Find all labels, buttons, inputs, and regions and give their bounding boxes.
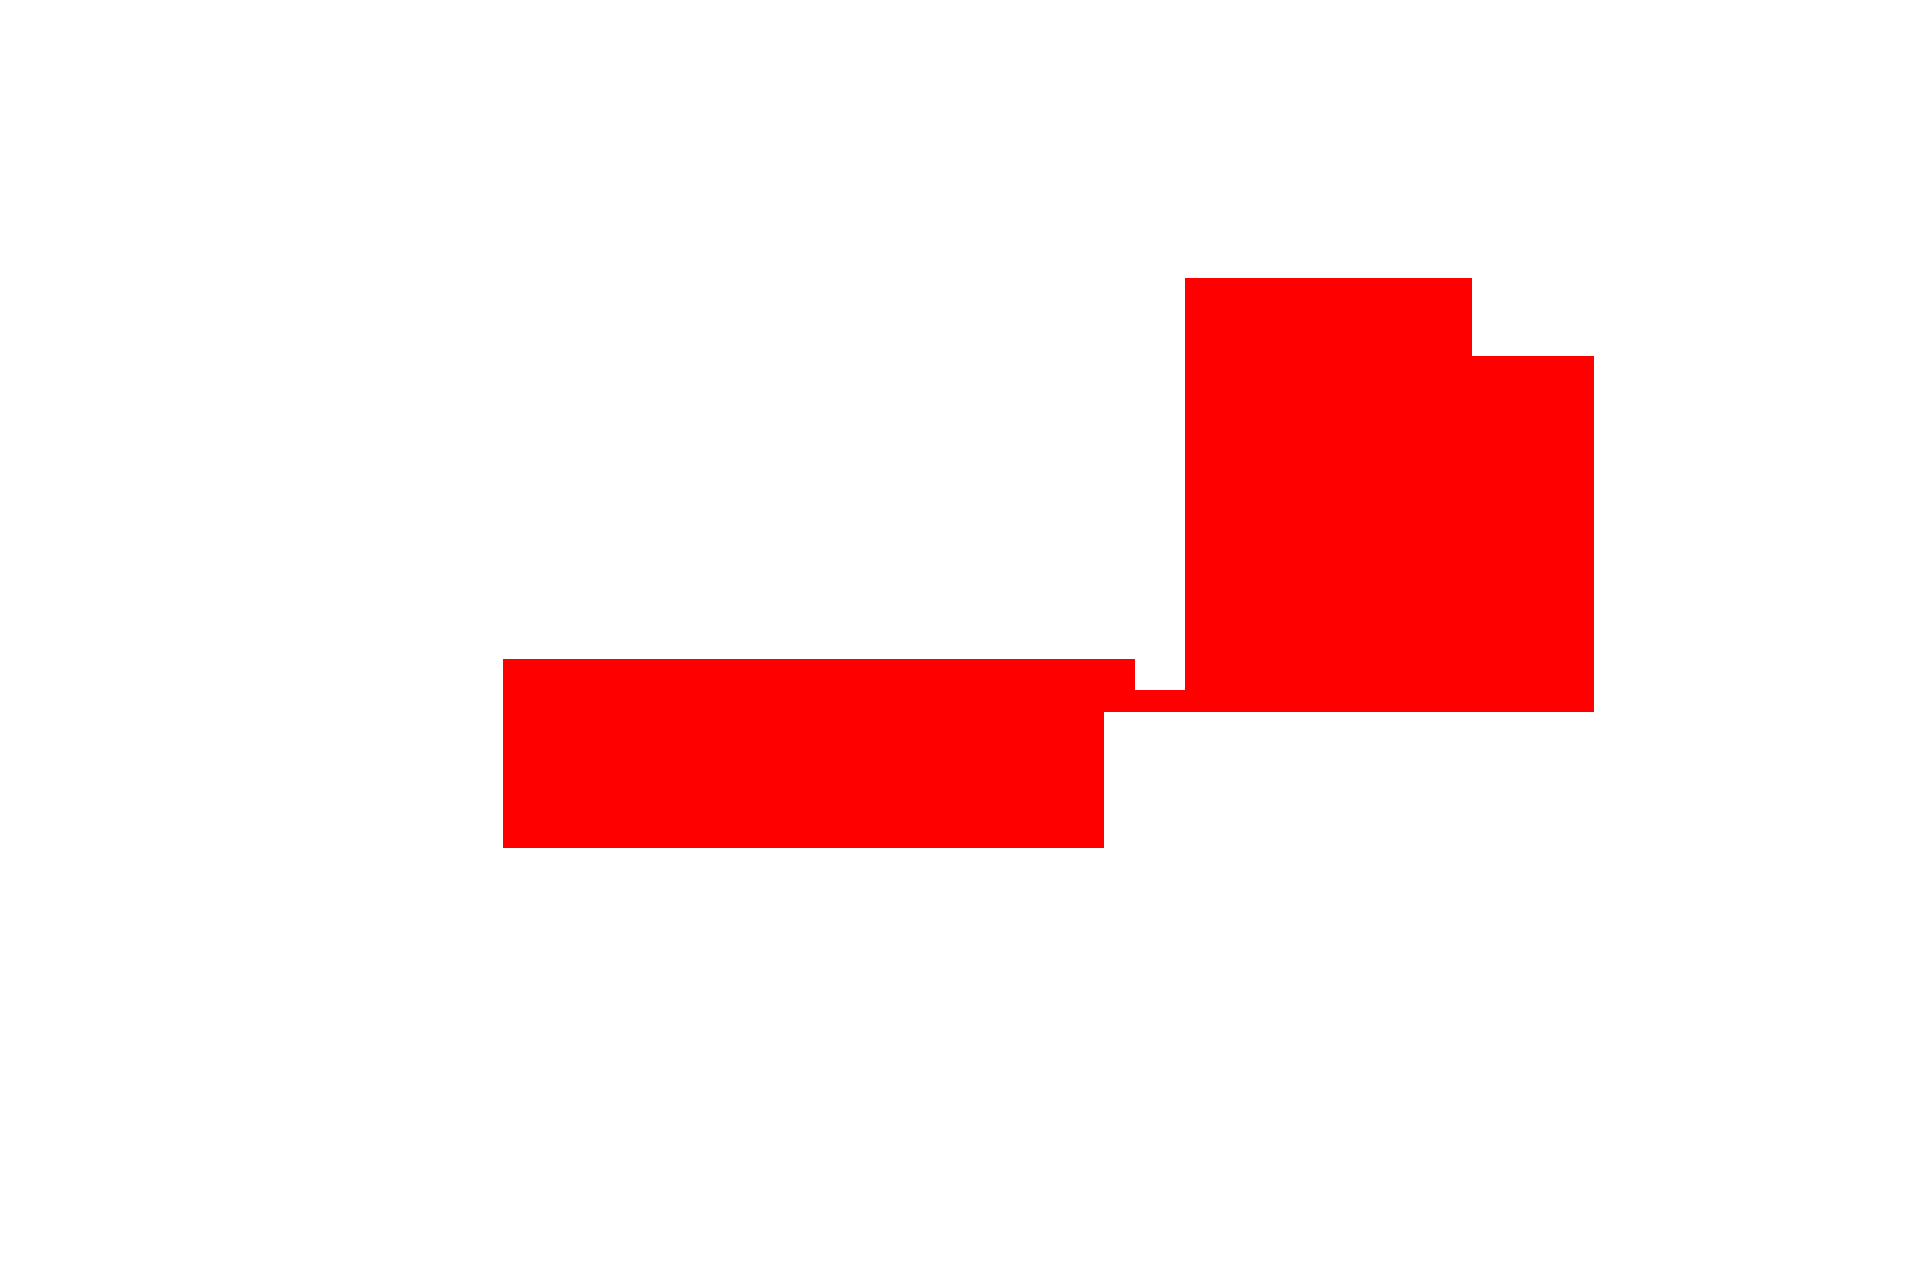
red block: right tall rectangle [1185,278,1472,712]
red block: connector strip joining left and right blocks [1104,690,1185,712]
red block: right lower step rectangle [1472,356,1594,712]
red block: left large rectangle [503,659,1104,848]
red block: small top extension right of left rectangle [1104,659,1135,690]
